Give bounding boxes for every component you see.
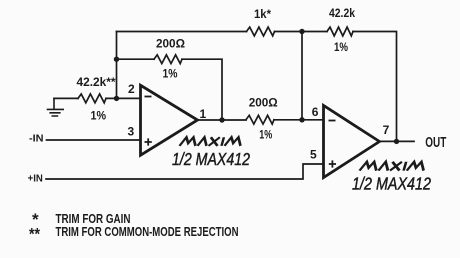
svg-text:1/2 MAX412: 1/2 MAX412 [352,174,431,194]
svg-text:TRIM FOR COMMON-MODE REJECTION: TRIM FOR COMMON-MODE REJECTION [56,225,239,239]
svg-text:42.2k: 42.2k [329,6,355,20]
svg-text:1k*: 1k* [254,7,271,21]
svg-text:1%: 1% [91,109,107,123]
svg-text:42.2k**: 42.2k** [77,75,116,89]
svg-text:OUT: OUT [425,135,446,151]
svg-text:+IN: +IN [28,173,43,184]
svg-text:1%: 1% [334,40,348,54]
svg-text:7: 7 [383,123,390,137]
svg-text:200Ω: 200Ω [156,37,185,51]
svg-text:-IN: -IN [29,134,44,145]
svg-text:3: 3 [128,125,135,139]
svg-text:1/2 MAX412: 1/2 MAX412 [172,149,250,169]
svg-text:TRIM FOR GAIN: TRIM FOR GAIN [56,212,131,226]
svg-text:1%: 1% [259,128,272,142]
svg-text:200Ω: 200Ω [249,95,278,109]
svg-text:1%: 1% [163,67,178,81]
svg-text:5: 5 [310,148,317,162]
svg-text:**: ** [29,225,40,244]
svg-text:2: 2 [128,82,135,96]
svg-text:1: 1 [200,107,207,121]
svg-text:6: 6 [312,105,319,119]
